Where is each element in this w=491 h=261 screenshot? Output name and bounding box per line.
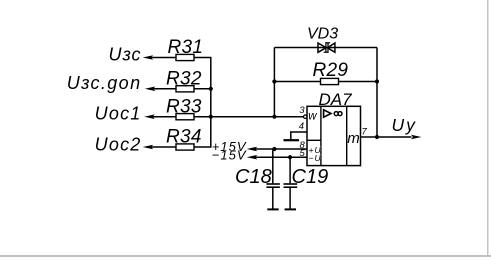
wire row 3 to op-amp input — [194, 116, 304, 118]
diode VD3 (bidirectional suppressor) — [318, 43, 335, 53]
pin 3 inversion circle — [304, 115, 307, 118]
wire feedback left vertical — [273, 48, 275, 117]
junction +15V/C18 — [272, 147, 276, 151]
wire input row 3 arrow — [144, 114, 155, 119]
svg-text:VD3: VD3 — [307, 26, 338, 43]
svg-text:−15V: −15V — [212, 147, 247, 162]
op-amp gain infinity symbol — [334, 112, 342, 116]
op-amp left field divider — [307, 139, 321, 141]
capacitor C18 — [266, 149, 280, 209]
junction feedback-left/input — [272, 115, 276, 119]
junction -15V/C19 — [288, 155, 292, 159]
junction feedback-right/output — [375, 135, 379, 139]
junction feedback-right/R29 — [375, 79, 379, 83]
svg-text:Uoc1: Uoc1 — [95, 104, 142, 124]
op-amp right field separator — [346, 106, 348, 165]
svg-text:C18: C18 — [235, 166, 272, 188]
wire -15V arrow — [247, 155, 258, 160]
wire row 4 right segment — [194, 146, 212, 148]
op-amp U1 body — [307, 106, 361, 165]
wire output — [361, 136, 412, 138]
svg-text:Uзс.gon: Uзс.gon — [67, 73, 142, 93]
svg-text:Uoc2: Uoc2 — [95, 135, 142, 155]
svg-text:4: 4 — [299, 121, 304, 132]
wire row 1 left segment — [151, 57, 177, 59]
wire R29 branch — [274, 81, 377, 83]
svg-text:−U: −U — [309, 153, 322, 163]
ground bar (pin 4) — [284, 139, 300, 141]
wire input row 4 arrow — [143, 145, 154, 150]
wire row 3 left segment — [152, 116, 176, 118]
svg-text:m: m — [347, 130, 360, 147]
wire output arrow — [411, 135, 422, 140]
svg-text:Uзс: Uзс — [109, 45, 142, 65]
junction bus/row2 — [209, 87, 213, 91]
ground bar (C19) — [285, 208, 296, 210]
page edge bottom — [0, 255, 491, 257]
resistor R31 — [176, 54, 194, 60]
op-amp left field separator — [320, 106, 322, 165]
resistor R33 — [176, 114, 194, 120]
wire row 1 right segment — [194, 57, 212, 59]
resistor R32 — [176, 86, 194, 92]
svg-text:3: 3 — [299, 105, 305, 116]
wire input row 1 arrow — [143, 55, 154, 60]
svg-text:R29: R29 — [313, 60, 349, 81]
wire row 2 right segment — [194, 88, 212, 90]
wire row 2 left segment — [153, 88, 176, 90]
ground bar (C18) — [267, 208, 278, 210]
resistor R34 — [176, 144, 194, 150]
wire input row 2 arrow — [145, 87, 156, 92]
wire feedback right vertical — [376, 48, 378, 138]
wire pin 4 to ground — [291, 132, 307, 140]
wire +15V arrow — [247, 147, 258, 152]
svg-text:7: 7 — [362, 126, 368, 137]
wire +15V to pin 8 — [255, 148, 307, 150]
page edge right — [487, 0, 489, 257]
wire summing bus (vertical) — [210, 58, 212, 148]
junction feedback-left/R29 — [272, 79, 276, 83]
wire row 4 left segment — [151, 146, 176, 148]
svg-text:w: w — [308, 110, 317, 122]
capacitor C19 — [284, 157, 298, 209]
resistor R29 — [321, 78, 339, 84]
junction bus/row3 — [209, 115, 213, 119]
wire VD3 top branch — [274, 47, 377, 49]
wire -15V to pin 5 — [255, 156, 307, 158]
svg-text:Uy: Uy — [392, 115, 417, 135]
op-amp amplifier symbol triangle — [324, 110, 331, 117]
